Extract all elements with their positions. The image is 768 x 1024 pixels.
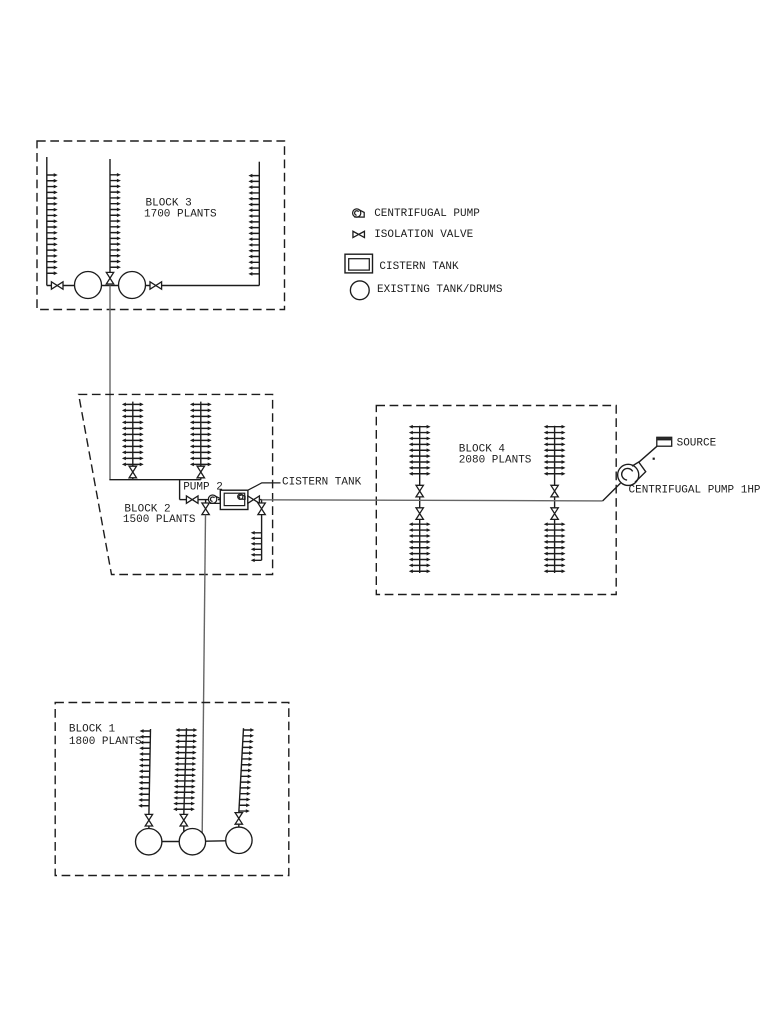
- svg-text:SOURCE: SOURCE: [677, 438, 717, 450]
- svg-text:CENTRIFUGAL PUMP: CENTRIFUGAL PUMP: [374, 208, 480, 220]
- svg-text:CISTERN TANK: CISTERN TANK: [379, 261, 459, 273]
- svg-text:1700 PLANTS: 1700 PLANTS: [144, 209, 217, 221]
- svg-text:CENTRIFUGAL PUMP 1HP: CENTRIFUGAL PUMP 1HP: [629, 484, 761, 496]
- svg-text:EXISTING TANK/DRUMS: EXISTING TANK/DRUMS: [377, 284, 503, 296]
- svg-text:CISTERN TANK: CISTERN TANK: [282, 477, 362, 489]
- svg-text:1800 PLANTS: 1800 PLANTS: [69, 736, 142, 748]
- svg-text:1500 PLANTS: 1500 PLANTS: [123, 514, 196, 526]
- svg-text:PUMP 2: PUMP 2: [183, 482, 223, 494]
- svg-text:BLOCK 1: BLOCK 1: [69, 723, 116, 735]
- svg-text:2080 PLANTS: 2080 PLANTS: [459, 454, 532, 466]
- svg-text:ISOLATION VALVE: ISOLATION VALVE: [374, 229, 473, 241]
